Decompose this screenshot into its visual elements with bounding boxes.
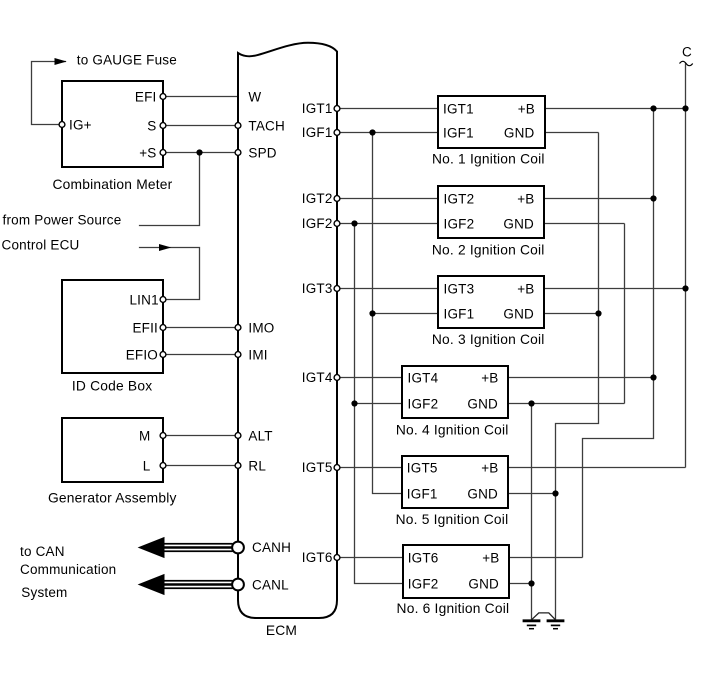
- ignition coil 5 box: [402, 456, 508, 508]
- CANH arrow to CAN bus: [138, 537, 233, 558]
- svg-text:C: C: [682, 44, 692, 59]
- ground bridge hop: [532, 613, 556, 620]
- svg-text:GND: GND: [467, 486, 498, 501]
- svg-text:EFIO: EFIO: [126, 347, 158, 362]
- wire coil6 +B: [505, 557, 583, 559]
- svg-text:GND: GND: [504, 125, 535, 140]
- svg-text:+B: +B: [481, 460, 498, 475]
- svg-text:IGT4: IGT4: [302, 370, 333, 385]
- pin RL: [235, 463, 241, 469]
- svg-text:No. 5 Ignition Coil: No. 5 Ignition Coil: [396, 512, 509, 527]
- svg-text:IGF1: IGF1: [443, 125, 474, 140]
- svg-text:IGT6: IGT6: [302, 550, 333, 565]
- svg-text:No. 1 Ignition Coil: No. 1 Ignition Coil: [432, 151, 545, 166]
- wire coil5 GND: [504, 493, 556, 495]
- svg-text:IGF1: IGF1: [407, 486, 438, 501]
- ground (left): [523, 621, 541, 629]
- ignition coil 6 box: [403, 545, 509, 598]
- svg-text:+S: +S: [139, 145, 156, 160]
- pin IMO: [235, 325, 241, 331]
- node C tilde: [680, 61, 693, 65]
- ECM outline: [238, 43, 337, 618]
- wire coil3 GND: [540, 313, 599, 315]
- combination meter box: [62, 81, 163, 167]
- wire GND net coils 2-4 vertical: [624, 224, 626, 404]
- svg-text:No. 3 Ignition Coil: No. 3 Ignition Coil: [432, 332, 545, 347]
- svg-text:IGF2: IGF2: [444, 216, 475, 231]
- wire IGT1: [337, 108, 443, 110]
- svg-text:IGT1: IGT1: [443, 101, 474, 116]
- junction dot IGF1 coil3: [369, 310, 375, 316]
- CANL arrow to CAN bus: [138, 574, 233, 595]
- svg-text:to GAUGE Fuse: to GAUGE Fuse: [77, 53, 177, 68]
- svg-text:ECM: ECM: [266, 623, 297, 638]
- junction dot IGF2 at ECM: [351, 220, 357, 226]
- wire EFIO to IMI: [161, 354, 238, 356]
- svg-text:IGF2: IGF2: [408, 396, 439, 411]
- svg-text:GND: GND: [468, 576, 499, 591]
- svg-text:+B: +B: [481, 370, 498, 385]
- junction dot coil2 +B: [650, 195, 656, 201]
- wire EFI to W: [160, 96, 238, 98]
- svg-text:CANL: CANL: [252, 577, 289, 592]
- pin IGT1: [334, 106, 340, 112]
- wire IGT2: [337, 198, 443, 200]
- wire L to RL: [161, 465, 238, 467]
- ignition coil 3 box: [438, 276, 544, 328]
- wire coil2 +B: [540, 198, 654, 200]
- svg-text:IGT2: IGT2: [302, 191, 333, 206]
- wire coil4 GND: [504, 403, 625, 405]
- svg-text:Communication: Communication: [20, 562, 116, 577]
- svg-text:IMI: IMI: [248, 347, 267, 362]
- pin IGF1: [334, 130, 340, 136]
- svg-text:No. 2 Ignition Coil: No. 2 Ignition Coil: [432, 243, 545, 258]
- svg-text:M: M: [139, 428, 150, 443]
- junction dot coil4 GND: [528, 400, 534, 406]
- pin ALT: [235, 433, 241, 439]
- junction dot coil3 +B: [682, 285, 688, 291]
- svg-text:IMO: IMO: [248, 320, 274, 335]
- ignition coil 2 box: [438, 186, 544, 238]
- wire coil4 +B: [504, 377, 654, 379]
- pin L: [160, 463, 166, 469]
- svg-text:No. 6 Ignition Coil: No. 6 Ignition Coil: [397, 601, 510, 616]
- svg-text:SPD: SPD: [248, 145, 276, 160]
- wire coil3 +B: [540, 288, 686, 290]
- pin S: [160, 123, 166, 129]
- svg-text:S: S: [147, 118, 156, 133]
- wire IGF2 vertical net: [355, 224, 408, 584]
- wire IGT5: [337, 467, 407, 469]
- svg-text:+B: +B: [517, 191, 534, 206]
- wire S to TACH: [160, 125, 238, 127]
- generator assembly box: [62, 418, 163, 482]
- svg-text:IGF1: IGF1: [444, 306, 475, 321]
- svg-text:GND: GND: [503, 216, 534, 231]
- wire bus +B vertical with jog: [583, 109, 654, 558]
- svg-text:EFII: EFII: [132, 320, 158, 335]
- pin IGF2: [334, 221, 340, 227]
- wire bus C vertical: [685, 63, 687, 467]
- svg-text:RL: RL: [248, 458, 266, 473]
- junction dot IGF1 at ECM: [369, 129, 375, 135]
- wire GND net coils 1-3-5 with jog to right ground: [556, 133, 599, 620]
- ignition coil 1 box: [438, 96, 545, 148]
- pin IGT3: [334, 286, 340, 292]
- svg-text:ID Code Box: ID Code Box: [72, 378, 152, 393]
- wire +S to SPD: [160, 152, 238, 154]
- svg-text:+B: +B: [482, 550, 499, 565]
- pin IGT5: [334, 465, 340, 471]
- pin IMI: [235, 352, 241, 358]
- wire M to ALT: [161, 435, 238, 437]
- wire Control ECU to LIN1: [139, 248, 200, 300]
- svg-text:LIN1: LIN1: [129, 292, 158, 307]
- wire EFII to IMO: [161, 327, 238, 329]
- wire coil6 GND: [505, 583, 532, 585]
- svg-text:L: L: [143, 458, 151, 473]
- pin IGT2: [334, 196, 340, 202]
- svg-text:IGT5: IGT5: [407, 460, 438, 475]
- wire IGT6: [337, 557, 407, 559]
- pin TACH: [235, 123, 241, 129]
- svg-text:+B: +B: [517, 281, 534, 296]
- ignition coil 4 box: [402, 366, 508, 418]
- ID code box: [62, 280, 163, 373]
- svg-text:IGF1: IGF1: [302, 125, 333, 140]
- svg-text:Control ECU: Control ECU: [2, 238, 80, 253]
- svg-text:W: W: [248, 89, 261, 104]
- svg-text:System: System: [21, 585, 67, 600]
- wire IGF1 vertical net: [373, 133, 408, 494]
- svg-text:EFI: EFI: [135, 89, 157, 104]
- svg-text:No. 4 Ignition Coil: No. 4 Ignition Coil: [396, 423, 509, 438]
- svg-text:ALT: ALT: [248, 428, 272, 443]
- pin EFI: [160, 94, 166, 100]
- wire coil5 +B: [504, 467, 686, 469]
- pin IGT6: [334, 555, 340, 561]
- svg-text:IGT3: IGT3: [444, 281, 475, 296]
- ground (right): [547, 621, 565, 629]
- junction dot coil1 +B C bus: [682, 105, 688, 111]
- svg-text:to CAN: to CAN: [20, 544, 65, 559]
- pin IGT4: [334, 375, 340, 381]
- pin EFIO: [160, 352, 166, 358]
- wire IGT4: [337, 377, 407, 379]
- svg-text:IGT2: IGT2: [444, 191, 475, 206]
- junction dot coil5 GND: [552, 490, 558, 496]
- wire GND branch coils 4-6 to left ground: [531, 404, 533, 620]
- pin CANH: [232, 542, 244, 554]
- svg-text:CANH: CANH: [252, 540, 291, 555]
- pin M: [160, 433, 166, 439]
- svg-text:IGT5: IGT5: [302, 460, 333, 475]
- wire IGT3: [337, 288, 443, 290]
- junction dot IGF2 coil4: [351, 400, 357, 406]
- junction dot coil6 GND: [528, 580, 534, 586]
- svg-text:IGT1: IGT1: [302, 101, 333, 116]
- svg-text:IG+: IG+: [69, 117, 92, 132]
- junction dot SPD branch: [196, 149, 202, 155]
- wire to GAUGE Fuse from IG+: [32, 62, 67, 125]
- wire IGF2: [337, 223, 443, 225]
- arrowhead Control ECU: [159, 244, 171, 251]
- wire IGF2 branch to coil 4: [355, 403, 408, 405]
- wire IGF1 branch to coil 3: [373, 313, 444, 315]
- junction dot coil3 GND: [595, 310, 601, 316]
- pin LIN1: [160, 297, 166, 303]
- pin IG+: [59, 122, 65, 128]
- svg-text:IGT6: IGT6: [408, 550, 439, 565]
- svg-text:+B: +B: [518, 101, 535, 116]
- junction dot coil1 +B bus: [650, 105, 656, 111]
- pin +S: [160, 150, 166, 156]
- pin SPD: [235, 150, 241, 156]
- svg-text:Combination Meter: Combination Meter: [53, 177, 173, 192]
- wire coil1 +B: [540, 108, 686, 110]
- wire coil2 GND: [540, 223, 625, 225]
- arrowhead to GAUGE Fuse: [55, 58, 67, 65]
- svg-text:IGF2: IGF2: [302, 216, 333, 231]
- svg-text:TACH: TACH: [248, 118, 285, 133]
- pin EFII: [160, 325, 166, 331]
- svg-text:IGT3: IGT3: [302, 281, 333, 296]
- svg-text:Generator Assembly: Generator Assembly: [48, 491, 177, 506]
- wire IGF1: [337, 132, 443, 134]
- junction dot coil4 +B: [650, 374, 656, 380]
- svg-text:GND: GND: [503, 306, 534, 321]
- wire from Power Source branch: [139, 153, 200, 226]
- pin CANL: [232, 579, 244, 591]
- wire coil1 GND: [540, 132, 599, 134]
- svg-text:GND: GND: [467, 396, 498, 411]
- svg-text:IGT4: IGT4: [408, 370, 439, 385]
- svg-text:IGF2: IGF2: [408, 576, 439, 591]
- svg-text:from Power Source: from Power Source: [3, 213, 122, 228]
